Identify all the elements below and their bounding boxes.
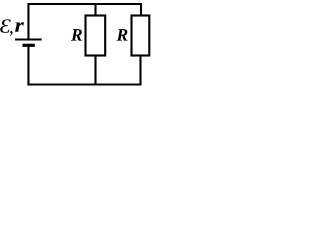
battery cell: short thick plate (negative) (23, 44, 35, 47)
label: comma (10, 31, 13, 36)
label: internal resistance r (15, 22, 24, 31)
wire: R1 top lead (94, 4, 96, 16)
wire: left wire lower + bottom wire + R2 bottom lead (28, 45, 140, 84)
wire: R1 bottom lead (94, 56, 96, 85)
label: resistor R1 value R (71, 29, 82, 40)
resistor R2 box (132, 16, 150, 56)
label: resistor R2 value R (116, 29, 127, 40)
label: emf symbol script-E (0, 19, 11, 32)
battery cell: long plate (positive) (15, 38, 42, 40)
wire: left wire upper + top wire + right wire down to R2 box (28, 4, 141, 40)
resistor R1 box (86, 16, 106, 56)
